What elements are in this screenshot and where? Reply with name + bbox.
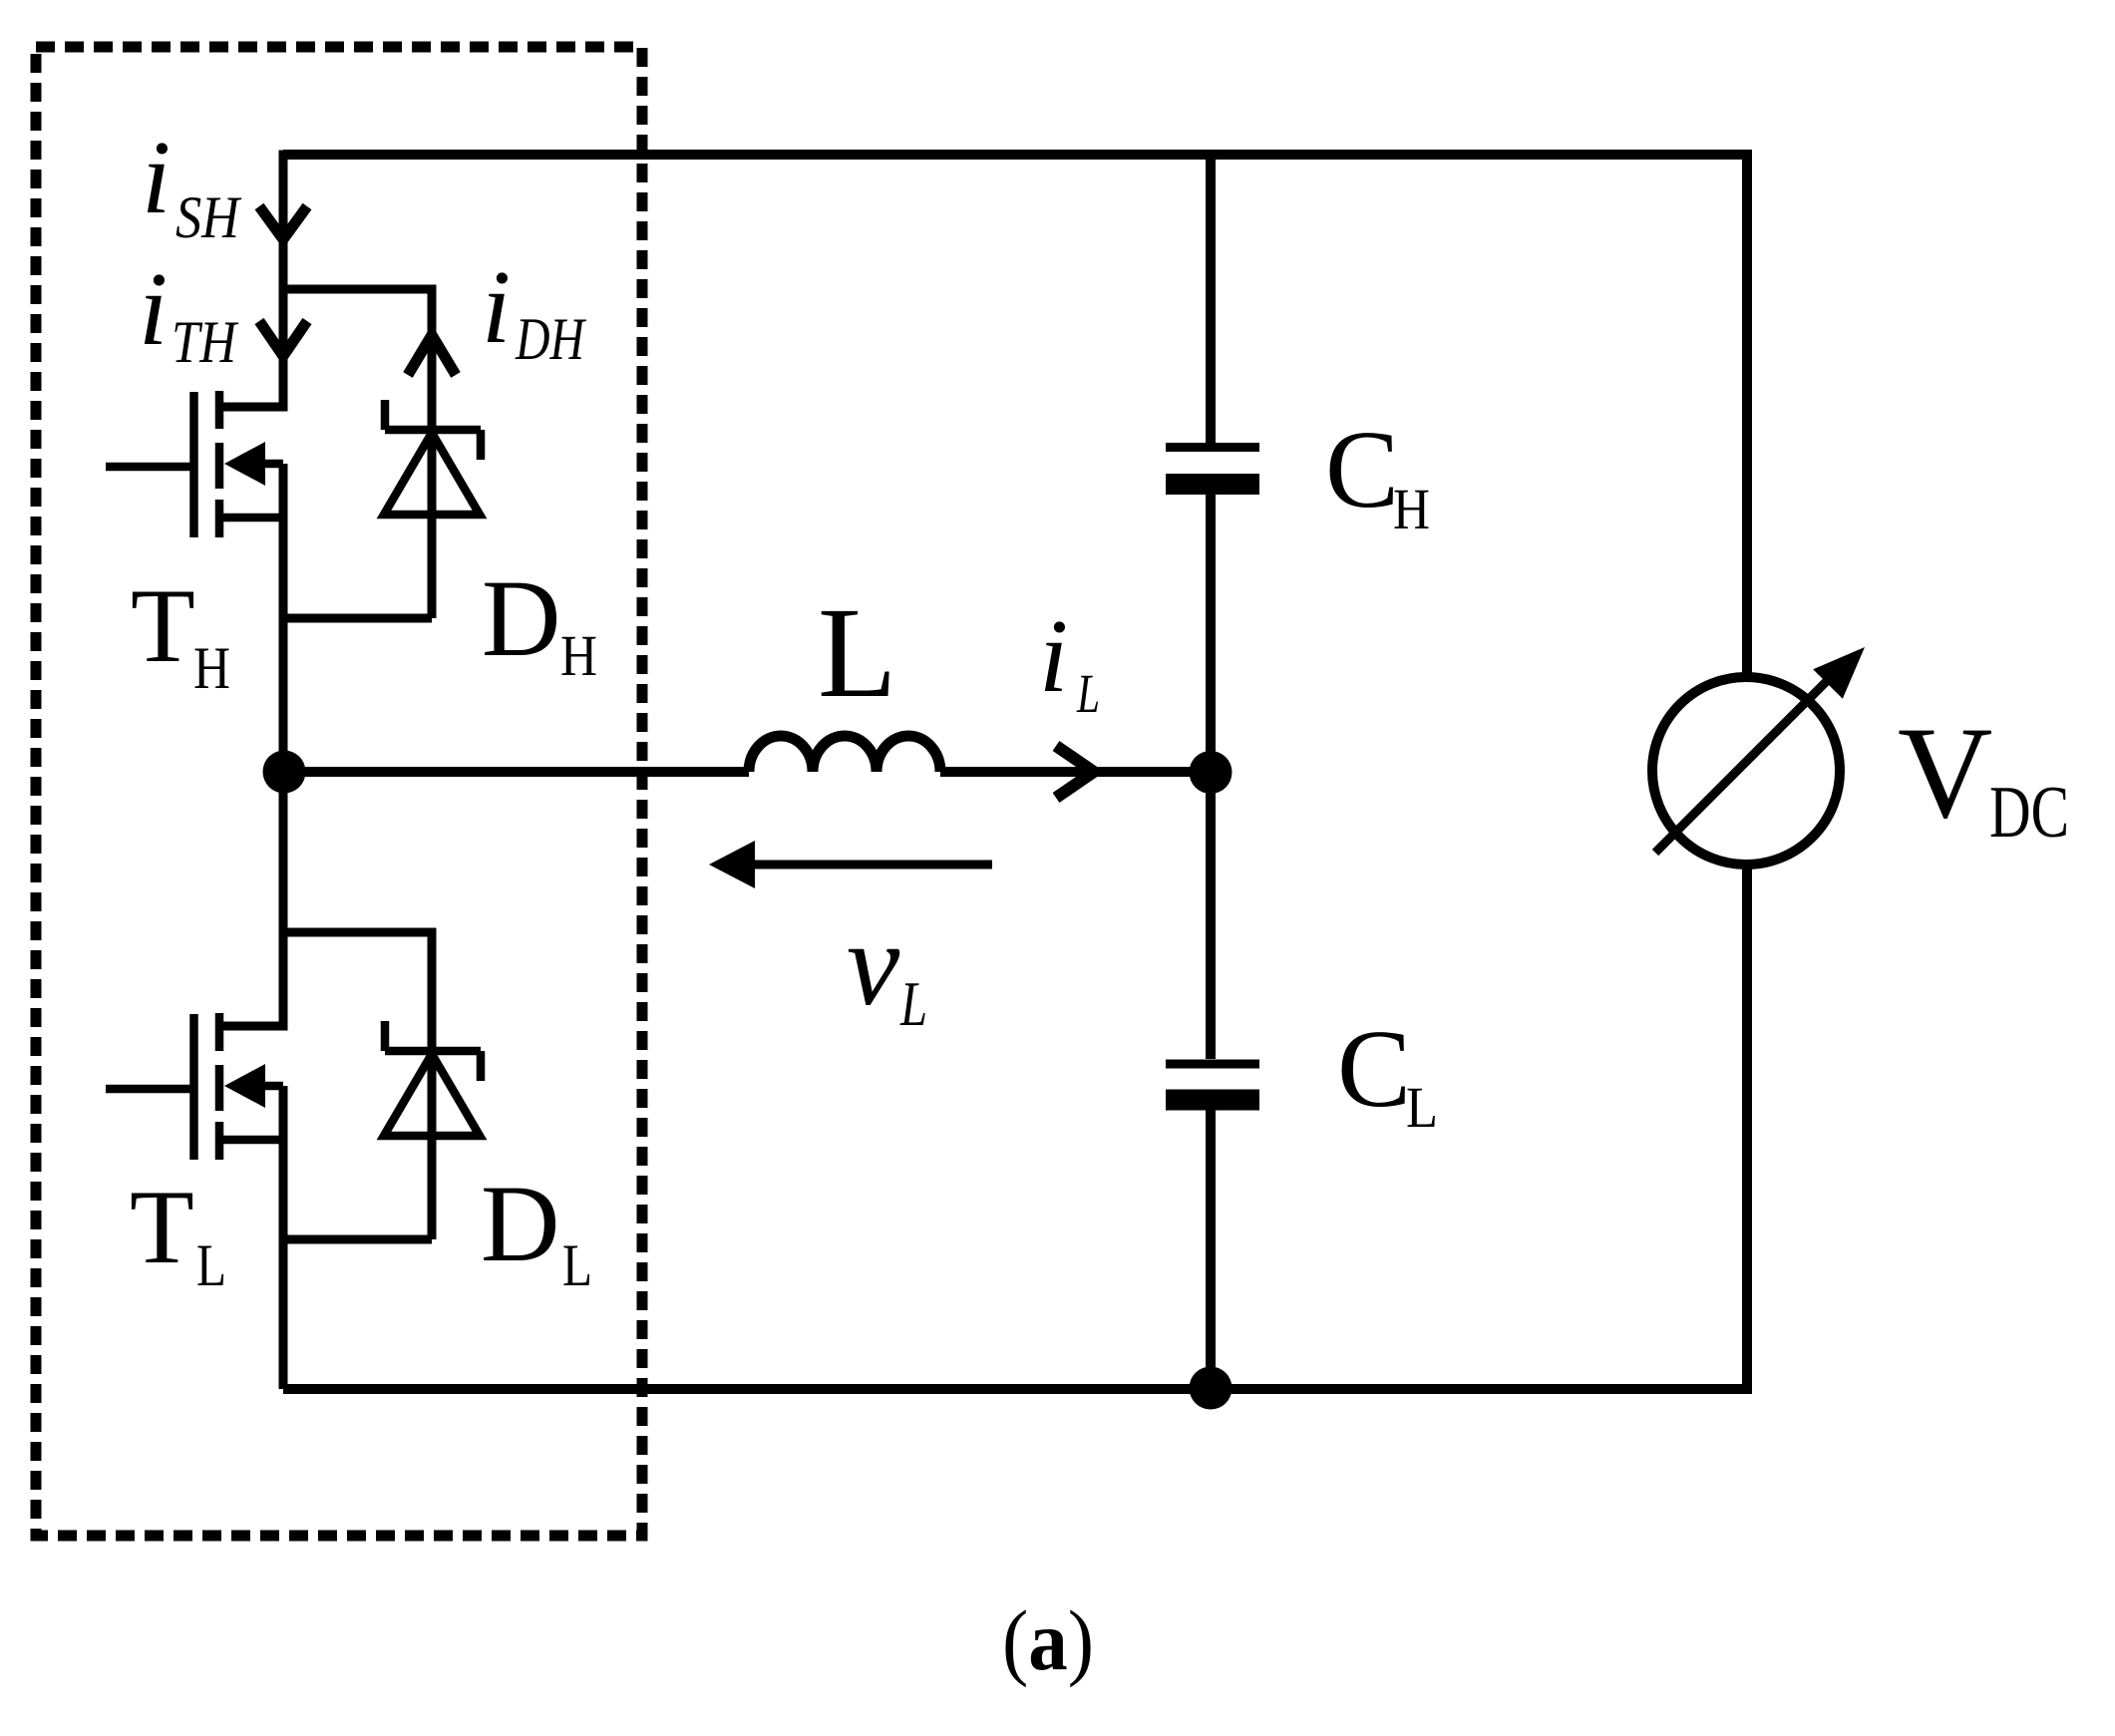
wire: top rail bbox=[283, 150, 1747, 160]
svg-text:T: T bbox=[130, 1169, 194, 1285]
svg-text:H: H bbox=[193, 635, 230, 701]
wire: CH to mid node bbox=[1206, 495, 1216, 772]
svg-text:D: D bbox=[482, 557, 560, 679]
wire: TL source drop bbox=[279, 1086, 288, 1239]
wire: TL drain stub bbox=[219, 928, 283, 1027]
wire: TH/DH top junction bbox=[283, 285, 432, 294]
dashed switching-cell boundary box bbox=[36, 47, 642, 1536]
svg-text:SH: SH bbox=[176, 184, 242, 250]
wire: CL to bottom rail bbox=[1206, 1110, 1216, 1389]
current arrow iDH bbox=[408, 335, 456, 375]
svg-text:i: i bbox=[482, 248, 511, 365]
wire: DL branch bbox=[428, 928, 437, 1240]
wire: bottom rail bbox=[283, 1384, 1747, 1394]
wire: TH drain stub bbox=[219, 285, 283, 408]
svg-text:v: v bbox=[847, 897, 900, 1030]
wire: mid rail left bbox=[284, 767, 749, 777]
wire: high-side drain drop bbox=[279, 151, 288, 290]
capacitor CH bbox=[1166, 443, 1259, 452]
wire: TL/DL top junction bbox=[283, 928, 432, 937]
wire: DH branch bbox=[428, 285, 437, 619]
svg-text:T: T bbox=[131, 567, 195, 684]
svg-text:C: C bbox=[1337, 1008, 1411, 1131]
source VDC (variable DC source) bbox=[1652, 677, 1840, 865]
svg-text:DC: DC bbox=[1989, 772, 2069, 854]
inductor L bbox=[749, 736, 940, 772]
current arrow iSH bbox=[259, 206, 307, 239]
svg-text:(a): (a) bbox=[1002, 1592, 1094, 1688]
wire: TH/DH bottom junction bbox=[283, 614, 432, 623]
diode DL (zener-style body diode) bbox=[384, 1054, 480, 1136]
svg-text:C: C bbox=[1325, 409, 1399, 531]
svg-text:H: H bbox=[1393, 477, 1430, 541]
svg-text:i: i bbox=[142, 119, 171, 235]
wire: TL/DL bottom junction bbox=[283, 1235, 432, 1244]
transistor TL (MOSFET) bbox=[106, 1013, 283, 1160]
svg-text:L: L bbox=[562, 1232, 592, 1298]
transistor TH (MOSFET) bbox=[106, 391, 283, 537]
wire: right rail top bbox=[1742, 150, 1752, 677]
svg-text:H: H bbox=[560, 623, 597, 688]
current arrow iTH bbox=[259, 321, 307, 356]
wire: bottom-left drop bbox=[279, 1239, 288, 1389]
node: mid-right (capacitor midpoint) bbox=[1190, 751, 1233, 794]
node: bottom rail / capacitor branch bbox=[1190, 1367, 1233, 1410]
svg-text:L: L bbox=[818, 581, 896, 725]
svg-text:L: L bbox=[1076, 663, 1100, 724]
wire: TH source drop bbox=[279, 464, 288, 618]
node A (switch midpoint) bbox=[263, 751, 306, 794]
svg-text:L: L bbox=[899, 968, 927, 1039]
svg-text:TH: TH bbox=[172, 309, 239, 375]
svg-text:DH: DH bbox=[515, 306, 587, 372]
svg-text:V: V bbox=[1898, 699, 1992, 846]
wire: CH branch top bbox=[1206, 155, 1216, 443]
capacitor CL bbox=[1166, 1060, 1259, 1069]
wire: CL branch bbox=[1206, 772, 1216, 1059]
arrow vL (inductor voltage reference) bbox=[751, 861, 992, 869]
diode DH (zener-style body diode) bbox=[384, 433, 480, 515]
svg-text:i: i bbox=[139, 250, 168, 367]
svg-text:L: L bbox=[196, 1232, 226, 1298]
current arrow iL bbox=[1056, 746, 1094, 798]
svg-text:D: D bbox=[481, 1163, 559, 1284]
svg-text:L: L bbox=[1406, 1075, 1438, 1140]
wire: right rail bottom bbox=[1742, 865, 1752, 1394]
wire: mid rail right bbox=[940, 767, 1211, 777]
svg-text:i: i bbox=[1039, 597, 1068, 714]
wire: junction to midpoint node bbox=[279, 618, 288, 932]
